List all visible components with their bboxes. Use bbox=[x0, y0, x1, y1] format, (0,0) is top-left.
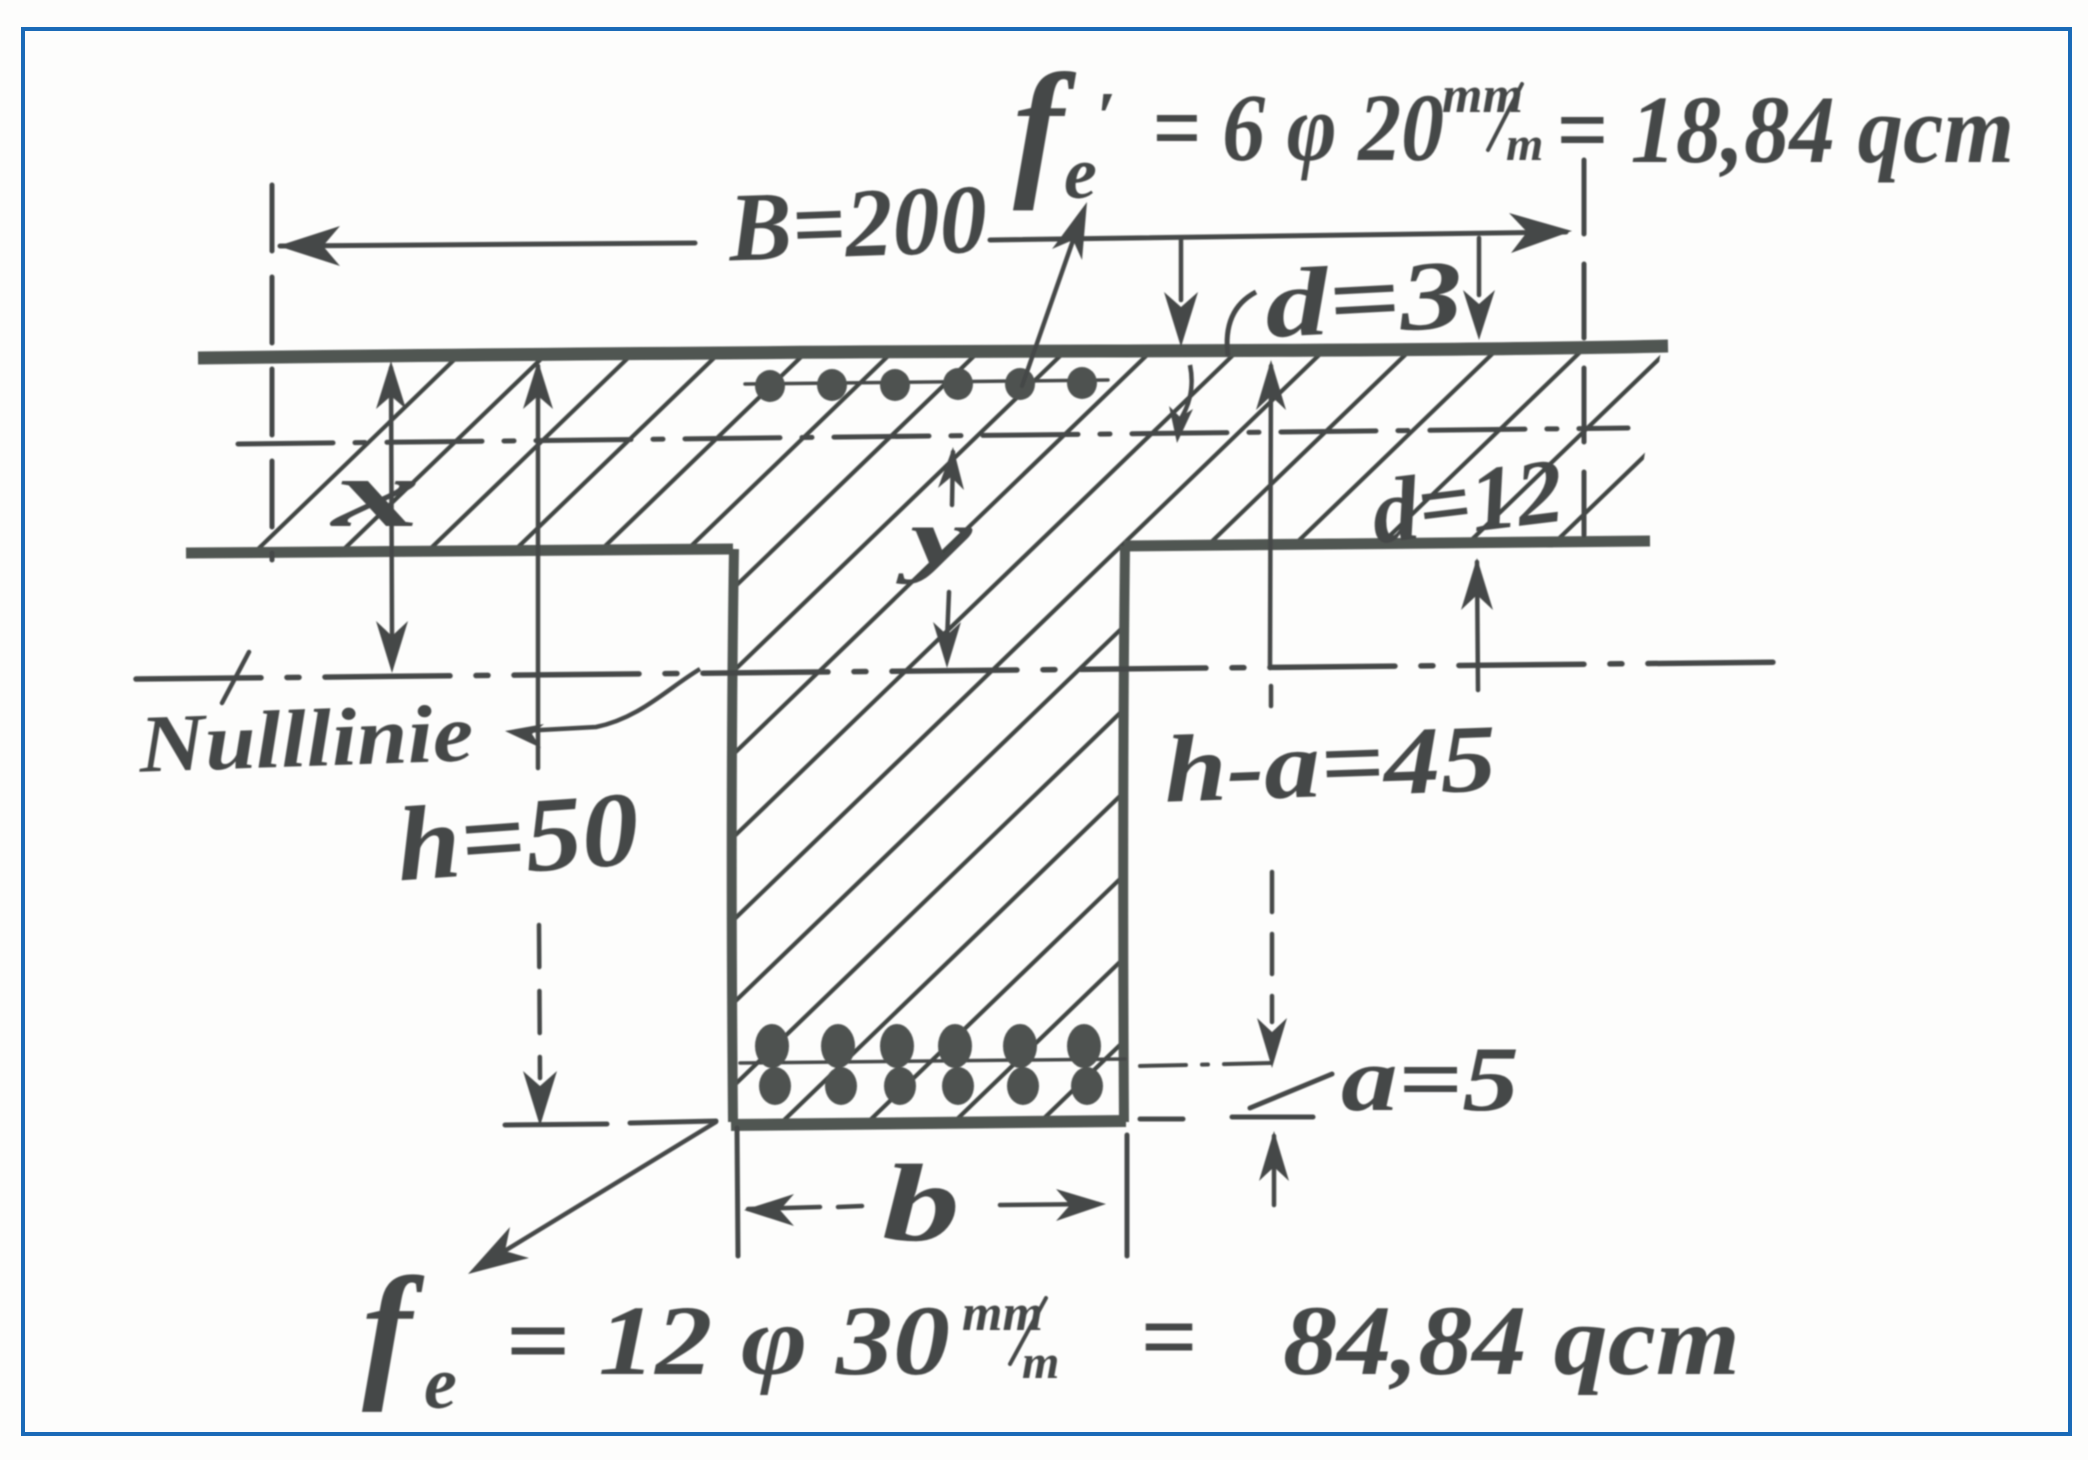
nulllinie leader bbox=[522, 669, 700, 731]
fe leader bbox=[480, 1122, 716, 1266]
b ext right bbox=[1125, 1135, 1130, 1256]
d=3 swash bbox=[1227, 292, 1256, 356]
svg-text:B=200: B=200 bbox=[726, 166, 989, 283]
h dim line upper bbox=[536, 366, 541, 768]
y dim upper arrow bbox=[952, 452, 953, 505]
a dim axis extension bbox=[1140, 1063, 1272, 1066]
flange bottom edge left bbox=[186, 549, 733, 553]
svg-text:=: = bbox=[1140, 1281, 1197, 1392]
b ext left bbox=[737, 1128, 738, 1256]
svg-text:e: e bbox=[424, 1343, 457, 1425]
b dim line right bbox=[1000, 1204, 1098, 1205]
flange bottom edge right bbox=[1124, 541, 1650, 546]
svg-text:m: m bbox=[1022, 1336, 1059, 1389]
B dim line left part bbox=[280, 243, 695, 246]
svg-text:h=50: h=50 bbox=[393, 770, 643, 904]
a dim up arrow bbox=[1272, 1136, 1277, 1205]
d=3 right arrow bbox=[1477, 238, 1482, 295]
h dim bottom extension bbox=[505, 1124, 607, 1125]
upper dash-dot datum line bbox=[238, 428, 1628, 444]
web left edge bbox=[732, 549, 734, 1122]
top rebar dots bbox=[755, 370, 785, 402]
d=3 left arrow bbox=[1179, 240, 1184, 300]
h dim line lower dashed bbox=[539, 925, 540, 1078]
web right edge bbox=[1123, 546, 1125, 1122]
B dim left extension line bbox=[270, 185, 275, 560]
concrete hatching bbox=[0, 331, 2088, 1180]
cover arrow below flange top bbox=[1180, 365, 1192, 420]
neutral axis tick bbox=[222, 652, 249, 703]
web bottom edge bbox=[731, 1121, 1126, 1125]
h-a dim line bbox=[1270, 366, 1271, 668]
svg-text:′: ′ bbox=[1096, 79, 1116, 156]
B dim right extension line bbox=[1582, 160, 1587, 535]
svg-text:mm: mm bbox=[962, 1285, 1043, 1342]
svg-text:Nulllinie: Nulllinie bbox=[137, 687, 475, 790]
d=12 arrow bbox=[1477, 562, 1478, 690]
b dim line left bbox=[748, 1207, 820, 1209]
svg-text:d=3: d=3 bbox=[1262, 241, 1465, 359]
svg-text:= 18,84 qcm: = 18,84 qcm bbox=[1556, 76, 2014, 183]
a dim slash tick bbox=[1250, 1074, 1332, 1108]
y dim lower arrow bbox=[947, 592, 949, 640]
fe-prime leader bbox=[1022, 232, 1076, 386]
svg-text:x: x bbox=[328, 440, 420, 548]
svg-text:h-a=45: h-a=45 bbox=[1162, 704, 1498, 823]
svg-text:m: m bbox=[1506, 118, 1543, 171]
bottom rebar axis line bbox=[740, 1059, 1125, 1063]
flange top edge bbox=[198, 346, 1668, 358]
web bottom right extensions bbox=[1140, 1117, 1183, 1122]
bottom rebar dots bbox=[755, 1024, 789, 1068]
x dim line bbox=[391, 368, 392, 636]
top rebar axis line bbox=[745, 380, 1108, 384]
svg-text:e: e bbox=[1064, 133, 1097, 215]
svg-text:= 6 φ 20: = 6 φ 20 bbox=[1152, 74, 1444, 181]
svg-text:a=5: a=5 bbox=[1341, 1028, 1519, 1130]
svg-text:84,84 qcm: 84,84 qcm bbox=[1283, 1285, 1740, 1396]
svg-text:b: b bbox=[882, 1142, 960, 1264]
svg-text:= 12 φ 30: = 12 φ 30 bbox=[505, 1285, 950, 1396]
B dim line right part bbox=[990, 232, 1566, 240]
svg-text:mm: mm bbox=[1442, 67, 1523, 124]
neutral axis line bbox=[136, 662, 1798, 679]
